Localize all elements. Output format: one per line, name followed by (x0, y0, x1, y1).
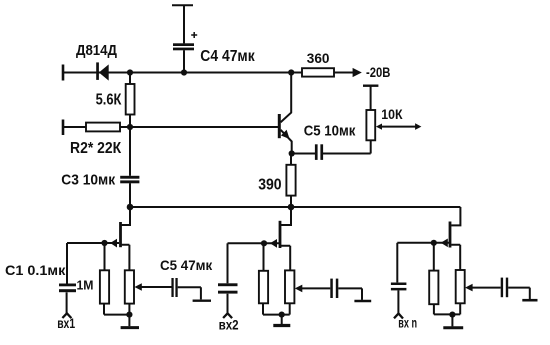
svg-text:R2* 22К: R2* 22К (70, 140, 122, 157)
svg-text:390: 390 (258, 177, 281, 194)
svg-text:C1 0.1мк: C1 0.1мк (5, 263, 66, 278)
svg-text:360: 360 (307, 50, 330, 66)
svg-text:вх1: вх1 (57, 316, 75, 331)
svg-text:вх2: вх2 (219, 317, 239, 332)
svg-text:C4 47мк: C4 47мк (200, 48, 255, 65)
svg-text:5.6К: 5.6К (96, 91, 122, 108)
svg-text:C5 10мк: C5 10мк (304, 123, 356, 140)
svg-text:C3 10мк: C3 10мк (61, 172, 115, 189)
svg-text:10К: 10К (381, 107, 403, 122)
svg-text:Д814Д: Д814Д (76, 42, 117, 59)
svg-text:-20В: -20В (366, 64, 390, 80)
svg-text:вх n: вх n (398, 316, 417, 331)
svg-text:1М: 1М (77, 278, 94, 293)
svg-text:C5 47мк: C5 47мк (160, 257, 213, 273)
